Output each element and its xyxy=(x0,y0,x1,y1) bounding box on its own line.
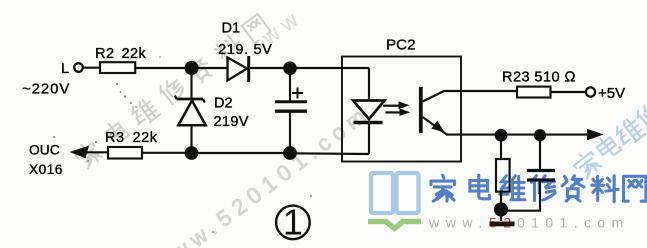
terminal +5V xyxy=(586,87,595,96)
watermark blue diagonal CJK right edge xyxy=(571,100,647,180)
transistor collector xyxy=(423,91,445,102)
wire R4 to node G xyxy=(500,192,502,204)
wire D1 to node B xyxy=(250,67,290,69)
svg-text:OUC: OUC xyxy=(29,143,60,158)
wire R23 to +5V terminal xyxy=(551,91,586,93)
svg-text:~220V: ~220V xyxy=(22,81,70,98)
wire L to R2 xyxy=(83,67,100,69)
svg-text:219. 5V: 219. 5V xyxy=(218,42,273,58)
figure number circled 1 xyxy=(276,202,310,243)
svg-text:+5V: +5V xyxy=(598,85,625,102)
capacitor C2 xyxy=(527,169,555,172)
node A junction xyxy=(186,62,198,74)
svg-text:R23 510 Ω: R23 510 Ω xyxy=(502,70,576,86)
capacitor C1 xyxy=(289,68,291,101)
wire node A to D1 xyxy=(192,67,228,69)
svg-text:22k: 22k xyxy=(122,46,147,62)
wire node G to ground xyxy=(500,214,502,221)
svg-text:219V: 219V xyxy=(214,114,249,130)
arrow OUC head xyxy=(70,146,90,159)
wire node F to C2 xyxy=(539,135,541,169)
resistor R23 xyxy=(517,87,551,98)
resistor R3 xyxy=(108,147,142,159)
zener diode D2 xyxy=(190,68,192,99)
node E junction xyxy=(496,130,507,141)
svg-text:X016: X016 xyxy=(29,162,63,177)
logo book icon xyxy=(368,173,421,229)
emitter rail arrowhead xyxy=(587,129,604,141)
watermark grey diagonal CJK row xyxy=(73,3,308,169)
svg-text:L: L xyxy=(61,61,69,77)
transistor emitter xyxy=(423,117,447,134)
svg-text:R3: R3 xyxy=(105,130,125,146)
resistor R4 xyxy=(496,159,510,192)
node G junction xyxy=(495,204,507,216)
opto arrowhead 1 xyxy=(399,101,410,109)
ground xyxy=(490,222,515,227)
node C junction xyxy=(284,147,296,159)
transistor emitter arrowhead xyxy=(431,121,444,133)
svg-text:22k: 22k xyxy=(133,130,158,146)
node D junction xyxy=(186,147,198,159)
opto light arrows xyxy=(383,105,399,107)
wire node B to opto LED bend xyxy=(290,67,369,69)
opto arrowhead 2 xyxy=(400,109,411,116)
wire C2 to node G xyxy=(501,180,540,211)
node F junction xyxy=(535,130,545,140)
svg-text:1: 1 xyxy=(283,202,303,243)
node B junction xyxy=(284,62,295,73)
arrow OUC output xyxy=(86,151,108,153)
collector wire to R23 xyxy=(445,90,518,92)
wire node C into opto box xyxy=(290,152,369,155)
wire node D to node C xyxy=(192,152,291,154)
logo text 家电维修资料网 xyxy=(431,175,646,202)
wire node E to R4 xyxy=(500,135,502,159)
diode D1 xyxy=(228,58,248,81)
svg-text:D2: D2 xyxy=(214,96,233,112)
svg-text:D1: D1 xyxy=(222,21,241,37)
svg-text:0101.com: 0101.com xyxy=(517,215,630,231)
svg-text:R2: R2 xyxy=(95,46,114,62)
terminal L xyxy=(74,63,83,72)
logo url www.520101.com xyxy=(428,215,630,231)
wire R2 to node A xyxy=(135,67,191,69)
wire R3 to node D xyxy=(142,152,192,154)
svg-text:www.: www. xyxy=(428,215,489,231)
svg-text:PC2: PC2 xyxy=(386,37,416,54)
opto box PC2 xyxy=(342,57,461,162)
opto LED xyxy=(368,68,370,100)
resistor R2 xyxy=(100,62,135,73)
transistor Q1 base bar xyxy=(419,87,423,133)
emitter rail wire xyxy=(446,134,588,136)
